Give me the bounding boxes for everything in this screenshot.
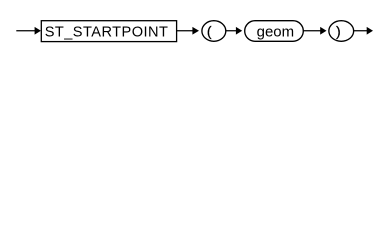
arrowhead into ST_STARTPOINT bbox=[35, 27, 41, 35]
wire bbox=[177, 30, 193, 32]
svg-text:(: ( bbox=[207, 23, 212, 39]
terminal ellipse ( bbox=[202, 21, 226, 42]
non-terminal box ST_STARTPOINT bbox=[41, 21, 176, 42]
arrowhead into ) bbox=[320, 27, 326, 35]
arrowhead into ( bbox=[192, 27, 199, 35]
terminal ellipse ) bbox=[329, 21, 354, 42]
terminal stadium geom bbox=[245, 21, 304, 42]
wire bbox=[303, 30, 320, 32]
wire out bbox=[354, 30, 367, 32]
arrowhead into geom bbox=[236, 27, 242, 35]
svg-text:ST_STARTPOINT: ST_STARTPOINT bbox=[45, 24, 169, 40]
arrowhead out bbox=[367, 27, 373, 35]
wire bbox=[226, 30, 236, 32]
wire bbox=[16, 30, 35, 32]
svg-text:geom: geom bbox=[257, 24, 295, 41]
svg-text:): ) bbox=[336, 23, 341, 39]
